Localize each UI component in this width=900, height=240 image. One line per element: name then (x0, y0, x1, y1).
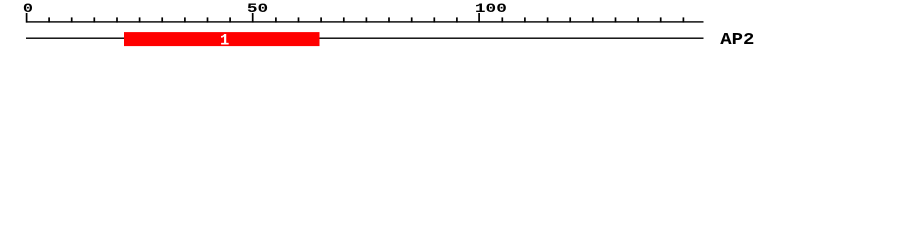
svg-text:1: 1 (220, 32, 229, 50)
svg-text:AP2: AP2 (720, 31, 754, 50)
major tick 100 (478, 13, 480, 23)
feature bar 1 (red) (124, 32, 320, 46)
major tick 0 (26, 13, 28, 23)
ruler label 100 (475, 1, 507, 16)
feature bar label 1 (220, 32, 229, 50)
ruler label 50 (247, 1, 268, 16)
minor ticks every 5 units (48, 17, 684, 22)
track name AP2 (720, 31, 754, 50)
svg-text:0: 0 (23, 1, 33, 17)
major tick 50 (252, 13, 254, 23)
feature track wire (26, 38, 704, 39)
svg-text:50: 50 (247, 1, 268, 16)
ruler baseline (26, 21, 704, 22)
ruler label 0 (23, 1, 33, 17)
